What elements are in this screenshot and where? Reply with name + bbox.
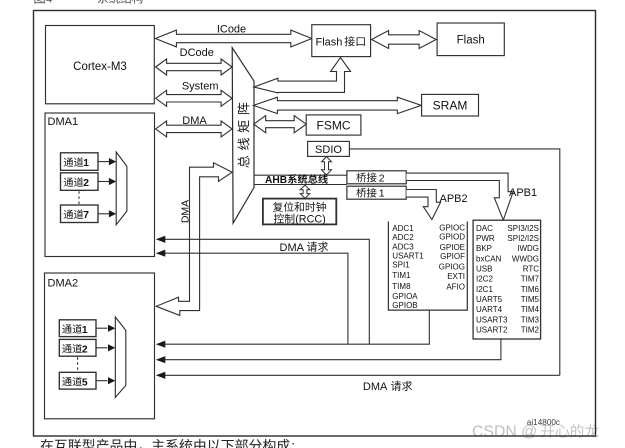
block DMA1 (45, 113, 155, 257)
svg-text:TIM8: TIM8 (392, 282, 411, 291)
svg-text:SPI1: SPI1 (392, 260, 410, 269)
svg-text:5: 5 (82, 377, 88, 388)
svg-text:USART3: USART3 (476, 315, 508, 324)
svg-text:WWDG: WWDG (512, 254, 539, 263)
bus arrow System (156, 90, 233, 106)
svg-text:UART5: UART5 (476, 295, 503, 304)
svg-text:APB2: APB2 (440, 193, 468, 205)
svg-text:GPIOD: GPIOD (439, 233, 465, 242)
arrows DMA1 channels to funnel (98, 158, 116, 217)
svg-text:DAC: DAC (476, 224, 493, 233)
block 复位和时钟控制(RCC) (263, 199, 336, 226)
svg-text:ADC1: ADC1 (392, 224, 414, 233)
svg-text:TIM6: TIM6 (521, 285, 540, 294)
arrowhead DMA2 request 2 (156, 356, 166, 363)
wire DMA2 request 1 (165, 310, 429, 344)
block 桥接1 (347, 186, 406, 200)
svg-text:ICode: ICode (217, 24, 246, 36)
svg-text:4: 4 (46, 0, 52, 6)
blocks DMA2 通道1/2/5 (59, 320, 96, 389)
label AHB系统总线 (265, 174, 328, 186)
svg-text:ai14800c: ai14800c (527, 418, 560, 427)
svg-text:DMA: DMA (182, 115, 207, 127)
block Cortex-M3 (46, 26, 155, 104)
bus arrow DMA (156, 121, 233, 137)
svg-text:GPIOE: GPIOE (440, 243, 465, 252)
svg-text:TIM4: TIM4 (521, 305, 540, 314)
svg-text:GPIOC: GPIOC (439, 224, 465, 233)
block Flash 接口 (312, 25, 371, 57)
svg-text:APB1: APB1 (509, 187, 537, 199)
svg-text:ADC3: ADC3 (392, 242, 414, 251)
svg-text:PWR: PWR (476, 234, 495, 243)
arrow 桥接1-APB2 (406, 190, 440, 220)
svg-text:2: 2 (379, 172, 385, 184)
svg-text:DMA1: DMA1 (48, 116, 79, 128)
arrow Flash接口-bus matrix (254, 58, 351, 93)
svg-text:TIM2: TIM2 (521, 326, 540, 335)
svg-text:DMA: DMA (363, 381, 388, 393)
svg-text:(RCC): (RCC) (295, 214, 326, 226)
label DMA 请求 lower (363, 381, 412, 393)
wire AHB bus top (254, 174, 347, 176)
svg-text:USB: USB (476, 265, 492, 274)
svg-text:USART2: USART2 (476, 326, 508, 335)
block bus matrix 总线矩阵 (232, 48, 254, 224)
svg-text:BKP: BKP (476, 244, 492, 253)
bus arrow DCode (156, 59, 233, 75)
arrow SDIO-AHB (322, 157, 332, 175)
svg-text:SRAM: SRAM (433, 99, 468, 113)
svg-text:EXTI: EXTI (447, 272, 465, 281)
svg-text:TIM1: TIM1 (392, 271, 411, 280)
svg-text:DMA: DMA (179, 200, 191, 223)
arrow Flash接口-Flash (372, 31, 437, 49)
svg-text:7: 7 (83, 210, 89, 221)
caption top 图4 系统结构 (35, 0, 143, 6)
arrow DMA2-bus matrix (156, 163, 232, 316)
block FSMC (306, 115, 361, 135)
svg-text:DMA2: DMA2 (48, 278, 79, 290)
svg-text:SDIO: SDIO (315, 144, 342, 156)
svg-text:GPIOF: GPIOF (440, 252, 465, 261)
arrowhead DMA2 request 3 (156, 372, 166, 379)
blocks DMA1 通道1/2/7 (61, 153, 99, 223)
labels APB1 left column (476, 224, 508, 335)
svg-text:TIM7: TIM7 (521, 275, 540, 284)
funnel DMA1 (116, 152, 127, 225)
watermark CSDN (472, 424, 599, 441)
svg-text:I2C1: I2C1 (476, 285, 493, 294)
wire DMA request A (165, 239, 369, 344)
svg-text:1: 1 (83, 158, 89, 169)
svg-text:I2C2: I2C2 (476, 275, 493, 284)
svg-text:Flash: Flash (457, 34, 485, 46)
label DMA 请求 upper (280, 242, 329, 254)
wire DMA2 request 2 (165, 339, 501, 360)
arrowhead DMA2 request 1 (156, 341, 166, 348)
labels APB2 left column (392, 224, 424, 310)
svg-text:GPIOB: GPIOB (392, 301, 417, 310)
svg-text:DCode: DCode (180, 47, 214, 59)
arrow 桥接2-APB1 (406, 173, 513, 220)
arrowhead DMA request A (156, 236, 166, 243)
block SDIO (308, 141, 350, 156)
svg-text:TIM5: TIM5 (521, 295, 540, 304)
svg-text:Cortex-M3: Cortex-M3 (73, 61, 127, 73)
svg-text:RTC: RTC (523, 265, 540, 274)
bus arrow ICode (155, 30, 311, 47)
svg-text:FSMC: FSMC (317, 118, 351, 132)
block APB1 peripherals (473, 220, 540, 339)
caption bottom (41, 438, 296, 448)
block 桥接2 (347, 171, 406, 185)
svg-text:SPI2/I2S: SPI2/I2S (507, 234, 539, 243)
arrow AHB-RCC (300, 185, 310, 198)
wire AHB bus bottom (254, 184, 347, 186)
block SRAM (422, 94, 479, 116)
svg-text:AHB: AHB (265, 175, 287, 186)
arrowhead DMA request B (156, 250, 166, 257)
svg-text:AFIO: AFIO (446, 282, 465, 291)
wire DMA request B (165, 253, 348, 344)
svg-text:GPIOA: GPIOA (392, 292, 418, 301)
block DMA2 (45, 273, 155, 419)
wire DMA2 request 3 (165, 374, 560, 376)
svg-text:SPI3/I2S: SPI3/I2S (507, 224, 539, 233)
svg-text:UART4: UART4 (476, 305, 503, 314)
arrow bus matrix-FSMC (254, 116, 307, 133)
svg-text:ADC2: ADC2 (392, 233, 414, 242)
funnel DMA2 (115, 317, 126, 398)
svg-text:bxCAN: bxCAN (476, 254, 502, 263)
labels APB1 right column (507, 224, 539, 335)
svg-text:GPIOG: GPIOG (439, 263, 465, 272)
svg-text:USART1: USART1 (392, 252, 424, 261)
labels APB2 right column (439, 224, 465, 292)
svg-text:1: 1 (379, 188, 385, 200)
dashed link 通道2-通道5 (77, 357, 79, 371)
svg-text:System: System (182, 80, 219, 92)
svg-text:2: 2 (82, 344, 88, 355)
arrow bus matrix-SRAM (253, 97, 421, 113)
svg-text:2: 2 (83, 178, 89, 189)
svg-text:1: 1 (82, 325, 88, 336)
svg-text:Flash: Flash (316, 36, 343, 48)
svg-text:IWDG: IWDG (517, 244, 539, 253)
arrows DMA2 channels to funnel (97, 325, 116, 385)
block Flash (437, 23, 504, 56)
svg-text:TIM3: TIM3 (521, 315, 540, 324)
wire SDIO to APB1/DMA (349, 149, 559, 375)
block APB2 peripherals (388, 222, 467, 311)
svg-text::: : (291, 438, 295, 448)
dashed link 通道2-通道7 (78, 191, 80, 204)
svg-text:DMA: DMA (280, 242, 305, 254)
